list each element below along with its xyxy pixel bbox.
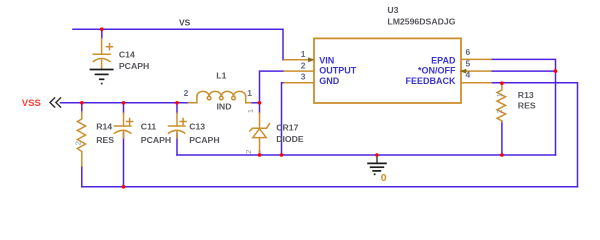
svg-text:CR17: CR17 — [276, 123, 298, 133]
svg-text:2: 2 — [74, 141, 83, 145]
svg-text:2: 2 — [495, 109, 504, 113]
svg-text:VS: VS — [179, 18, 191, 28]
svg-text:R13: R13 — [518, 90, 534, 100]
svg-text:VSS: VSS — [22, 98, 41, 109]
svg-text:6: 6 — [466, 47, 471, 57]
svg-text:2: 2 — [244, 150, 253, 154]
svg-text:3: 3 — [301, 72, 306, 82]
svg-text:1: 1 — [301, 49, 306, 59]
svg-text:EPAD: EPAD — [431, 56, 456, 66]
svg-text:IND: IND — [217, 101, 232, 111]
svg-text:1: 1 — [495, 93, 504, 97]
svg-text:LM2596DSADJG: LM2596DSADJG — [387, 17, 455, 27]
svg-text:RES: RES — [96, 135, 114, 145]
svg-text:2: 2 — [301, 60, 306, 70]
svg-text:PCAPH: PCAPH — [141, 135, 171, 145]
svg-text:*ON/OFF: *ON/OFF — [418, 66, 456, 76]
svg-text:4: 4 — [466, 70, 471, 80]
svg-text:VIN: VIN — [319, 56, 334, 66]
svg-text:1: 1 — [247, 88, 252, 98]
svg-text:2: 2 — [184, 88, 189, 98]
svg-text:PCAPH: PCAPH — [189, 135, 219, 145]
svg-text:R14: R14 — [96, 121, 112, 131]
svg-text:U3: U3 — [387, 5, 398, 15]
svg-text:RES: RES — [518, 101, 536, 111]
svg-text:OUTPUT: OUTPUT — [319, 66, 357, 76]
svg-text:DIODE: DIODE — [276, 134, 304, 144]
svg-text:C14: C14 — [119, 50, 135, 60]
svg-text:PCAPH: PCAPH — [119, 61, 149, 71]
svg-text:L1: L1 — [216, 71, 226, 81]
svg-text:GND: GND — [319, 76, 340, 86]
svg-text:C11: C11 — [141, 121, 157, 131]
svg-text:0: 0 — [381, 172, 387, 184]
svg-text:1: 1 — [246, 109, 255, 113]
svg-text:C13: C13 — [189, 121, 205, 131]
svg-text:5: 5 — [466, 58, 471, 68]
svg-text:FEEDBACK: FEEDBACK — [405, 76, 456, 86]
